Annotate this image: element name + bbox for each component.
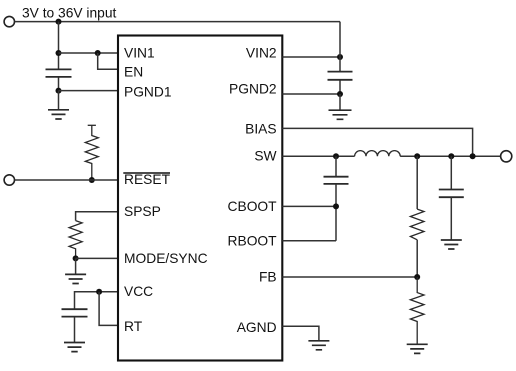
inductor L1 [355,151,401,157]
wire input right vertical [339,22,341,94]
wire cboot vertical lower [335,184,337,241]
node input junction [56,19,62,25]
resistor R3 [410,277,424,344]
svg-text:RBOOT: RBOOT [228,234,278,249]
svg-text:VIN2: VIN2 [246,46,277,61]
wire VIN2 [282,56,340,58]
wire EN stub [98,53,118,69]
node VIN1 tap [56,50,62,56]
node VCC junction [96,289,102,295]
node VIN1/EN junction [95,50,101,56]
wire divider upper stub [416,156,418,209]
resistor R1 [85,125,98,180]
svg-text:RT: RT [124,319,143,334]
node CBOOT [333,203,339,209]
wire BIAS [282,128,472,156]
svg-text:MODE/SYNC: MODE/SYNC [124,251,208,266]
capacitor C2 [328,72,353,80]
svg-text:PGND1: PGND1 [124,85,172,100]
node MODE/SYNC junction [73,255,79,261]
node SW bias [470,153,476,159]
wire input top [15,21,340,23]
terminal RESET J2 [4,175,14,185]
wire cout upper [450,156,452,189]
pin label RESET [123,172,170,187]
svg-text:AGND: AGND [237,320,277,335]
wire AGND [282,326,319,340]
node SW divider [414,153,420,159]
wire MODE/SYNC [76,257,118,259]
wire RESET [15,179,118,181]
wire input vertical [58,22,60,91]
ground G5 [407,344,428,353]
node SW cboot [333,153,339,159]
svg-text:SPSP: SPSP [124,204,161,219]
capacitor C3 [62,309,88,316]
capacitor C5 [439,190,464,198]
node FB [414,274,420,280]
svg-text:FB: FB [259,269,277,284]
IC U1 [118,36,282,361]
wire RBOOT [282,240,336,242]
svg-text:PGND2: PGND2 [229,81,277,96]
node SW cout [448,153,454,159]
node PGND1 [56,88,62,94]
capacitor C1 [46,69,72,77]
wire FB [282,276,417,278]
terminal input J1 [4,16,14,26]
ground G7 [308,341,329,350]
svg-text:VIN1: VIN1 [124,46,155,61]
wire RT [99,292,118,326]
svg-text:EN: EN [124,64,143,79]
wire PGND2 [282,93,340,95]
terminal output J3 [501,151,512,162]
svg-text:CBOOT: CBOOT [228,199,278,214]
ground G1 [48,110,69,119]
svg-text:SW: SW [254,149,276,164]
resistor R2 [410,209,424,240]
ground G3 [64,343,85,352]
wire ground stub PGND1 [58,91,60,110]
node VIN2 [337,54,343,60]
wire cout lower [450,198,452,240]
wire SPSP [76,212,118,221]
wire C3 lower [74,317,76,342]
svg-text:VCC: VCC [124,284,153,299]
wire SW [282,155,500,157]
capacitor C4 [324,177,349,184]
wire VIN1 [59,52,119,54]
ground G2 [65,274,86,283]
wire divider mid stub [416,240,418,277]
wire ground stub PGND2 [339,94,341,110]
svg-text:RESET: RESET [124,172,171,187]
wire ground stub MODE [75,258,77,274]
resistor R4 [69,221,82,259]
ground G4 [329,110,352,119]
svg-text:3V to 36V input: 3V to 36V input [22,6,117,21]
wire PGND1 [59,90,119,92]
wire VCC [75,292,119,309]
node RESET junction [89,177,95,183]
node PGND2 [337,91,343,97]
wire CBOOT [282,205,336,207]
svg-text:BIAS: BIAS [245,121,276,136]
wire cboot vertical upper [335,156,337,176]
ground G6 [441,240,462,249]
